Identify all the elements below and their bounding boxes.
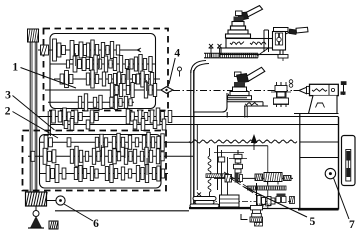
label 7 leader line [334,178,350,219]
svg-text:1: 1 [12,62,18,74]
lower turret body [228,82,252,100]
platform spring wave [245,102,258,105]
upper slide base plate [221,48,280,55]
apron diag dash-dot links [224,172,258,196]
svg-text:7: 7 [349,219,355,231]
hatched feed rod [206,174,229,178]
coolant level wavy line [189,140,297,143]
pivot pin hook near machine edge [178,67,182,77]
svg-text:4: 4 [174,48,180,60]
tailstock leg [309,96,338,114]
half-nut disc stack [190,197,219,208]
apron clutch housing [220,195,240,207]
worm (hatched) [255,174,263,181]
bed right-bottom heavy segment [298,209,339,211]
rapid shaft coupling (hatched) [225,175,232,183]
label 3 leader line [13,96,55,131]
shaft II line [50,63,155,65]
cross slide cap plate [274,28,289,32]
shaft III gear cluster [60,70,154,89]
bevel junction blocks [235,174,243,183]
label 2 leader line [13,112,59,139]
tailstock center point [294,87,307,93]
apron spring coil [208,148,211,197]
cross slide body box [273,32,286,51]
clamp bolts on slide [209,44,223,57]
feed shaft C line [40,173,168,175]
bed top rail lower [50,124,339,126]
feed gearbox inner housing (rounded) [40,135,162,189]
headstock housing (rounded) [194,93,227,112]
chuck platform ticks [229,94,242,98]
bed top rail upper [38,116,339,118]
coolant arrow [251,134,257,150]
svg-text:5: 5 [310,216,316,228]
upper turret body [226,17,251,39]
gear mesh link lines feed box [83,144,147,175]
apron gear group mid [257,196,275,207]
apron rack teeth [248,186,287,190]
shaft II gear cluster [66,55,152,74]
machine right edge [338,117,340,210]
label 6 [93,218,99,230]
intermediate gear cluster left [52,108,99,131]
label 4 leader line [169,58,175,84]
tailstock quill [307,86,310,93]
label 5 [310,216,316,228]
rapid motor box [264,173,282,185]
label 2 [5,106,11,118]
shaft I gear cluster [53,39,141,61]
tank left wall [196,125,198,190]
upper slide body with springs [226,39,276,49]
small bolt cross left of stack [197,193,201,197]
feed shaft C gear cluster [46,165,165,183]
intermediate gear cluster right [126,108,172,131]
apron left shaft small gear [218,150,224,196]
oil level gauge [342,136,356,186]
speed gearbox inner housing (rounded) [50,34,156,109]
belt drive hatched top bracket [28,29,39,42]
label 6 leader line [64,204,93,221]
tailstock body [310,84,339,95]
feed tube curve into machine [191,61,209,74]
lubricator circle (item 7 target) [325,168,335,178]
shaft V stub with gears [48,94,134,111]
right bed lines [300,142,339,158]
apron small rects row [276,194,286,203]
headstock right support [226,112,228,118]
bed vertical divider [299,114,301,209]
platform support to rail [245,106,247,118]
apron inner box [218,146,268,208]
spindle center line (dash-dot) [173,90,296,92]
motor hanger below pulley [28,206,44,228]
svg-text:2: 2 [5,106,11,118]
svg-text:6: 6 [93,218,99,230]
cross slide handle with arrow grip [286,27,309,34]
shaft IV gear cluster [110,82,156,98]
chuck platform lines [227,98,268,106]
turret feed screw cluster [271,82,291,107]
rapid traverse shaft [214,177,293,179]
label 5 leader line [244,187,307,217]
shaft I input coupling (hatched) [41,45,49,55]
feed shaft A line [40,141,191,143]
apron vertical shaft with bevel gears [214,150,247,183]
upper slide rack (toothed) [204,53,258,58]
apron second vertical shaft [227,157,229,195]
vertical link shaft into feed box [48,111,50,136]
gear mesh link lines upper box [76,53,147,91]
cross slide foot [278,50,288,61]
leadscrew hanging gear stack [250,183,263,226]
feed gearbox dashed enclosure [23,131,167,191]
pump circle (item 6) [46,196,65,205]
left bottom frame line [55,210,189,212]
speed gearbox dashed enclosure [44,29,169,111]
label 4 [174,48,180,60]
label 1 leader line [21,68,77,89]
rapid shaft rod (hatched) [284,176,292,181]
belt bottom pulley block (hatched) [26,192,48,206]
belt vertical run (double lines) [30,42,37,195]
shaft I line [38,49,140,51]
tailstock handwheel bracket [341,81,347,95]
screw cluster bolts [289,80,293,88]
label 1 [12,62,18,74]
machine left edge (double line) [191,70,194,209]
machine bottom heavy left segment [189,207,252,209]
cross slide left support [257,30,269,56]
machine bottom edge [189,208,339,210]
shaft III line [54,78,160,80]
lower turret handle [235,67,265,83]
tailstock base line [294,113,339,115]
bottom center bracket marks [241,214,248,220]
upper turret handle [236,6,263,21]
svg-text:3: 3 [5,89,11,101]
label 7 [349,219,355,231]
feed shaft B line [28,155,193,157]
apron lower axis (dash-dot) [196,201,291,203]
feed shaft A gear cluster [44,132,164,152]
label 3 [5,89,11,101]
feed shaft B gear cluster [31,146,164,166]
small hatched base right of motor [49,221,58,229]
small hatched pad left of divider [290,197,295,204]
friction clutch (item 4 target) [161,87,173,94]
shaft IV line [45,89,162,91]
